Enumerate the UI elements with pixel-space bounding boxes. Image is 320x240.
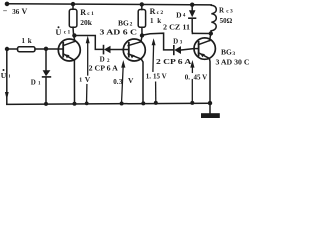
label 0.3V xyxy=(113,76,134,86)
node arrow1 ground xyxy=(85,102,89,106)
wire top supply rail xyxy=(7,4,211,5)
svg-text:V: V xyxy=(128,76,134,85)
svg-text:1.: 1. xyxy=(146,72,152,80)
node arrow3 ground xyxy=(154,101,158,105)
wire BG2 emitter down xyxy=(141,59,143,103)
wire input to resistor xyxy=(7,48,18,50)
svg-text:D: D xyxy=(176,10,182,19)
node input terminal xyxy=(5,47,9,51)
wire BG1 collector up xyxy=(74,36,75,42)
node supply terminal xyxy=(5,2,10,7)
arrow annotation Ui down xyxy=(5,92,9,100)
svg-text:k: k xyxy=(88,18,93,27)
svg-text:3 AD 30 C: 3 AD 30 C xyxy=(216,58,250,66)
svg-text:45 V: 45 V xyxy=(194,74,208,82)
svg-text:1: 1 xyxy=(79,76,82,83)
svg-text:D: D xyxy=(173,37,178,45)
svg-text:2 CZ 11: 2 CZ 11 xyxy=(163,24,191,32)
svg-text:k: k xyxy=(28,37,32,45)
svg-text:1: 1 xyxy=(38,82,41,87)
svg-text:c 3: c 3 xyxy=(226,9,233,15)
arrow annotation Uc1 / 1V xyxy=(86,36,90,104)
svg-text:R: R xyxy=(150,7,156,16)
svg-text:c 1: c 1 xyxy=(87,11,94,17)
svg-text:36: 36 xyxy=(12,8,19,16)
svg-text:4: 4 xyxy=(183,14,186,19)
wire BG2 collector up xyxy=(141,36,142,42)
transistor BG3 xyxy=(194,38,215,59)
svg-text:3: 3 xyxy=(119,78,123,86)
resistor Rc1 xyxy=(69,2,77,34)
arrow annotation 1.15V xyxy=(152,38,156,103)
node arrow2 ground xyxy=(120,102,124,106)
svg-text:V: V xyxy=(22,7,28,16)
node BG2 emitter ground xyxy=(141,101,145,105)
label Ui xyxy=(1,69,11,80)
svg-text:D: D xyxy=(31,79,36,87)
node BG3 emitter ground junction xyxy=(208,101,212,105)
wire BG1 emitter down xyxy=(73,60,75,104)
svg-text:15 V: 15 V xyxy=(153,72,167,80)
svg-text:R: R xyxy=(219,7,225,15)
node D1-ground junction xyxy=(44,102,48,106)
wire input left vertical xyxy=(6,49,8,104)
svg-text:1: 1 xyxy=(22,37,26,45)
node BG3 collector junction xyxy=(209,31,213,35)
diode D1 xyxy=(43,49,51,104)
arrow annotation 0.3V xyxy=(121,60,125,104)
svg-text:2: 2 xyxy=(130,22,133,28)
svg-text:3: 3 xyxy=(232,51,235,57)
label 1.15V xyxy=(146,72,167,80)
svg-text:R: R xyxy=(80,8,86,17)
svg-text:1: 1 xyxy=(150,17,154,25)
svg-text:3: 3 xyxy=(180,41,183,46)
resistor 1k input xyxy=(18,47,36,52)
svg-text:2 CP 6 A: 2 CP 6 A xyxy=(89,65,118,73)
svg-text:20: 20 xyxy=(80,18,88,27)
svg-text:2: 2 xyxy=(107,59,110,64)
svg-text:i: i xyxy=(9,75,11,80)
svg-text:V: V xyxy=(85,75,91,84)
wire bottom ground rail xyxy=(7,103,210,104)
svg-text:2 CP 6 A: 2 CP 6 A xyxy=(156,58,191,66)
svg-text:D: D xyxy=(100,56,105,64)
svg-text:−: − xyxy=(3,7,8,16)
ground xyxy=(201,103,220,118)
svg-text:U: U xyxy=(1,71,7,80)
wire D4 to collector node xyxy=(193,32,211,34)
node Rc2-collector junction xyxy=(140,33,144,37)
svg-text:c 2: c 2 xyxy=(157,10,164,16)
svg-text:k: k xyxy=(157,17,161,25)
svg-text:0.: 0. xyxy=(185,74,191,82)
diode D2 xyxy=(104,46,123,54)
svg-text:3 AD 6 C: 3 AD 6 C xyxy=(100,29,138,37)
svg-text:c 1: c 1 xyxy=(64,30,71,36)
transistor BG1 xyxy=(58,39,80,61)
diode D4 xyxy=(189,2,196,33)
label 0.45V xyxy=(185,74,207,82)
svg-text:BG: BG xyxy=(118,18,129,27)
label 1V xyxy=(79,75,91,84)
node BG1 emitter ground xyxy=(73,102,77,106)
wire BG3 emitter down xyxy=(208,59,211,104)
node arrow4 ground xyxy=(190,101,194,105)
wire BG3 collector up xyxy=(210,34,211,41)
transistor BG2 xyxy=(122,39,145,61)
svg-text:BG: BG xyxy=(221,48,232,57)
wire collector node to D3 xyxy=(142,33,173,50)
wire resistor to base node xyxy=(35,48,63,50)
coil resistor Rc3 xyxy=(211,5,216,33)
arrow annotation 0.45V xyxy=(190,60,194,103)
wire collector node to D2 xyxy=(74,36,103,50)
svg-text:U: U xyxy=(56,28,62,37)
svg-text:Ω: Ω xyxy=(227,17,233,25)
resistor Rc2 xyxy=(138,2,145,34)
node Rc1-collector junction xyxy=(72,33,76,37)
label Uc1 xyxy=(56,26,71,37)
diode D3 xyxy=(174,46,194,55)
node A input junction xyxy=(44,47,48,51)
